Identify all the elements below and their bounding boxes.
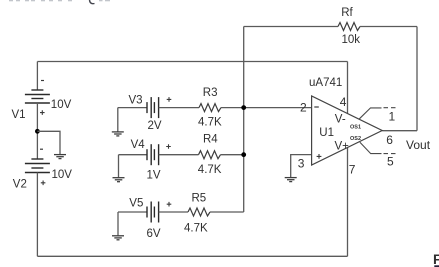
wire: R3 to op-amp pin 2	[221, 107, 312, 109]
node: V1/V2 midpoint junction	[35, 129, 40, 134]
wire: ground to V4	[119, 154, 148, 156]
resistor R4	[199, 151, 221, 159]
resistor R5	[188, 208, 210, 216]
wire: R4 row ground riser	[118, 155, 120, 178]
wire: feedback top rail right segment	[360, 26, 417, 28]
svg-text:V1: V1	[12, 109, 26, 121]
svg-text:4: 4	[340, 95, 347, 109]
wire: V2 bottom stem	[36, 173, 38, 257]
svg-text:R5: R5	[192, 193, 207, 205]
wire: bottom return rail	[37, 255, 347, 257]
op-amp non-inverting input marker	[317, 154, 322, 159]
battery V5	[147, 202, 159, 223]
wire: V4 to R4	[159, 154, 199, 156]
resistor Rf	[338, 23, 360, 31]
svg-text:3: 3	[298, 157, 305, 171]
battery V4	[147, 144, 159, 165]
wire: feedback right vertical	[416, 27, 418, 131]
battery V2	[25, 159, 50, 173]
svg-text:1V: 1V	[147, 170, 161, 182]
label V1 plus	[40, 110, 45, 115]
svg-text:V3: V3	[129, 94, 143, 106]
svg-text:V+: V+	[335, 141, 350, 153]
svg-text:2: 2	[300, 100, 307, 114]
svg-text:uA741: uA741	[309, 77, 342, 89]
ground GND4	[112, 236, 124, 240]
svg-text:OS1: OS1	[350, 125, 361, 131]
wire: R5 row ground riser	[117, 212, 119, 235]
wire: inverting summing bus vertical	[243, 27, 245, 213]
svg-text:5: 5	[387, 155, 394, 169]
wire: V1 to V2 stem	[36, 103, 38, 159]
label V2 minus	[40, 148, 43, 150]
svg-text:Rf: Rf	[341, 7, 353, 19]
svg-text:Vout: Vout	[406, 138, 431, 152]
svg-text:V4: V4	[131, 139, 146, 151]
pin 1 offset null stub	[359, 108, 382, 119]
svg-text:10V: 10V	[51, 99, 72, 111]
svg-text:6: 6	[386, 133, 393, 147]
wire: pin 7 riser from bottom rail	[347, 148, 349, 257]
svg-text:V-: V-	[335, 114, 346, 126]
wire: top V- supply rail from V1 to pin 4	[37, 61, 347, 63]
label V3 plus	[167, 97, 172, 102]
ground GND1	[54, 155, 66, 159]
label V1 minus	[41, 80, 44, 82]
svg-text:4.7K: 4.7K	[198, 164, 222, 176]
resistor R3	[199, 104, 221, 112]
wire: ground to V5	[118, 211, 147, 213]
op-amp U1 triangle	[312, 96, 383, 165]
wire: pin 4 drop into op-amp top edge	[347, 62, 349, 114]
svg-text:4.7K: 4.7K	[198, 117, 222, 129]
svg-text:6V: 6V	[147, 228, 161, 240]
svg-text:R4: R4	[203, 133, 218, 145]
svg-text:OS2: OS2	[350, 136, 361, 142]
cropped text fragments top edge	[9, 0, 110, 4]
svg-text:10V: 10V	[52, 169, 73, 181]
svg-text:1: 1	[389, 109, 396, 123]
ground GND5	[285, 178, 297, 182]
label V5 plus	[167, 202, 172, 207]
svg-text:7: 7	[349, 162, 356, 176]
node: R4/bus junction	[241, 152, 246, 157]
label V4 plus	[166, 144, 171, 149]
wire: feedback top rail left segment	[244, 26, 338, 28]
wire: junction to ground GND1	[37, 131, 60, 154]
wire: V1 top stem	[36, 62, 38, 91]
svg-text:2V: 2V	[148, 120, 162, 132]
ground GND2	[112, 132, 124, 136]
label V2 plus	[41, 181, 46, 186]
wire: op-amp output to feedback	[382, 130, 417, 132]
wire: ground to V3	[118, 107, 147, 109]
svg-text:F: F	[433, 251, 439, 267]
svg-text:U1: U1	[319, 127, 334, 139]
pin 5 offset null stub	[360, 142, 382, 153]
svg-text:V5: V5	[129, 197, 143, 209]
svg-text:V2: V2	[13, 178, 27, 190]
battery V3	[147, 97, 159, 118]
battery V1	[25, 90, 50, 103]
wire: V5 to R5	[159, 211, 188, 213]
node: R3/bus junction	[241, 105, 246, 110]
svg-text:10k: 10k	[342, 34, 361, 46]
svg-text:R3: R3	[203, 87, 218, 99]
wire: R4 to bus	[221, 154, 244, 156]
wire: R3 row ground riser	[117, 108, 119, 132]
op-amp inverting input marker	[314, 106, 319, 108]
wire: V3 to R3	[159, 107, 199, 109]
ground GND3	[113, 178, 125, 182]
wire: pin 3 to ground	[291, 155, 312, 178]
wire: R5 to bus bottom	[210, 211, 244, 213]
svg-text:4.7K: 4.7K	[184, 222, 208, 234]
